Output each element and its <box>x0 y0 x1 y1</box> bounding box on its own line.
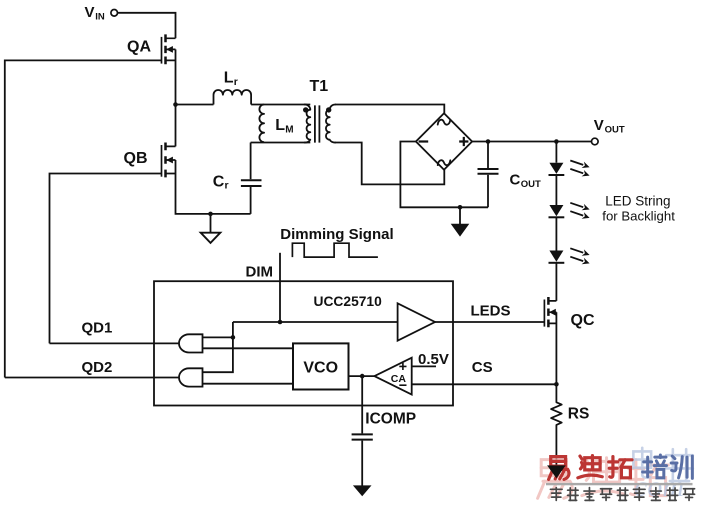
wire QA source to node A <box>175 49 177 146</box>
CA minus input mark <box>399 384 406 386</box>
wire QC source to CS node <box>555 312 557 384</box>
bridge AC squiggle bottom <box>438 160 451 165</box>
ground below RS <box>547 465 566 478</box>
wire VIN to QA drain <box>118 13 176 39</box>
inductor LM <box>259 105 264 143</box>
svg-text:UCC25710: UCC25710 <box>314 294 383 309</box>
svg-text:QA: QA <box>127 38 151 55</box>
node ICOMP junction <box>360 374 365 379</box>
wire T1 secondary bottom to bridge AC2 <box>335 143 444 185</box>
svg-text:T1: T1 <box>310 78 329 95</box>
wire QD1 <box>50 342 180 344</box>
svg-text:V: V <box>85 4 95 21</box>
comparator CA (faces left) <box>374 358 411 395</box>
dimming signal waveform <box>292 243 378 257</box>
ground (open) below Cr rail <box>210 214 212 233</box>
transistor QA <box>162 34 176 64</box>
svg-text:M: M <box>285 125 293 136</box>
transformer T1 secondary winding <box>326 104 336 142</box>
watermark blue text pei-xun <box>643 455 667 478</box>
svg-text:r: r <box>234 76 238 88</box>
svg-text:QB: QB <box>124 150 148 167</box>
transformer T1 core <box>315 105 320 142</box>
diode bridge rectifier <box>416 113 472 169</box>
node A junction <box>173 102 178 107</box>
inductor Lr <box>176 104 214 106</box>
wire VCO to AND1 input B <box>203 347 294 349</box>
T1 secondary phasing dot <box>326 107 331 112</box>
bridge AC squiggle top <box>438 120 451 125</box>
svg-text:QD1: QD1 <box>82 320 113 337</box>
wire QB gate lead down to QD1 <box>50 174 162 344</box>
svg-text:LEDS: LEDS <box>471 303 511 320</box>
bridge minus sign <box>419 140 429 142</box>
node ground tap junction <box>208 212 213 217</box>
ground below ICOMP cap <box>353 485 372 496</box>
PWM buffer U2 <box>398 303 435 340</box>
wire VCO output to CA <box>349 375 375 377</box>
wire QB source to bottom rail <box>176 160 251 214</box>
transistor QB <box>162 143 176 178</box>
svg-text:OUT: OUT <box>605 124 625 135</box>
wire D2 to D3 <box>555 217 557 250</box>
svg-text:IN: IN <box>95 11 105 22</box>
svg-text:QC: QC <box>571 312 595 329</box>
svg-text:VCO: VCO <box>303 359 338 376</box>
wire bridge negative to bottom rail <box>400 142 488 208</box>
wire LEDS to QC gate <box>435 322 544 323</box>
capacitor on ICOMP <box>352 434 373 439</box>
UCC25710 controller box U1 <box>154 281 453 405</box>
node bottom rail ground junction <box>458 205 463 210</box>
AND gate G2 (QD2 driver, faces left) <box>179 368 203 386</box>
svg-text:ICOMP: ICOMP <box>365 410 416 427</box>
wire D3 to QC drain <box>555 263 557 301</box>
svg-text:QD2: QD2 <box>82 359 113 376</box>
AND gate G1 (QD1 driver, faces left) <box>179 334 203 352</box>
svg-text:LED String: LED String <box>605 194 670 209</box>
LED D3 <box>549 251 563 262</box>
node VOUT terminal <box>592 138 599 145</box>
capacitor COUT <box>487 142 489 169</box>
svg-text:OUT: OUT <box>521 179 541 190</box>
wire ICOMP pin <box>361 376 363 433</box>
node CS junction <box>554 382 559 387</box>
T1 primary phasing dot <box>303 107 308 112</box>
VCO block <box>293 343 349 389</box>
svg-text:r: r <box>225 180 229 192</box>
wire to AND1 input A <box>203 336 233 338</box>
wire T1 primary bottom rail <box>251 142 311 144</box>
svg-text:Dimming Signal: Dimming Signal <box>280 226 393 243</box>
wire QA gate lead to left rail <box>5 60 162 377</box>
capacitor Cr <box>250 143 252 180</box>
svg-text:com: com <box>634 470 684 503</box>
wire DIM pin <box>279 253 281 322</box>
wire DIM branch vertical <box>203 322 233 372</box>
svg-text:DIM: DIM <box>246 264 274 281</box>
svg-text:L: L <box>275 117 285 134</box>
svg-text:C: C <box>510 171 521 188</box>
wire D1 to D2 <box>555 175 557 205</box>
resistor RS <box>551 384 562 465</box>
wire bridge positive to VOUT <box>472 141 591 143</box>
svg-text:RS: RS <box>568 405 590 422</box>
svg-text:CS: CS <box>472 359 493 376</box>
transformer T1 primary winding <box>304 104 310 142</box>
svg-text:CA: CA <box>391 373 407 385</box>
wire Lr to T1 primary top <box>251 104 310 106</box>
node gate1 input junction <box>231 335 236 340</box>
LED D1 <box>549 163 563 174</box>
wire CA inverting input / CS <box>412 383 557 385</box>
ground below bridge <box>459 207 461 224</box>
node DIM junction <box>278 320 283 325</box>
svg-text:L: L <box>224 69 234 86</box>
wire LED string top <box>555 142 557 163</box>
node COUT junction <box>486 139 491 144</box>
svg-text:0.5V: 0.5V <box>418 351 449 368</box>
svg-text:V: V <box>594 117 604 134</box>
watermark light echo layer <box>538 460 573 499</box>
bridge plus sign <box>459 137 468 146</box>
CA plus input mark <box>399 363 406 370</box>
LED D2 <box>549 205 563 216</box>
watermark red text yi-di-tuo <box>549 457 569 480</box>
watermark underline <box>546 483 693 485</box>
wire 0.5V reference stub <box>412 365 436 367</box>
wire QD2 <box>5 377 179 379</box>
svg-text:C: C <box>213 173 225 190</box>
svg-text:for Backlight: for Backlight <box>602 209 675 224</box>
node VIN terminal <box>111 10 118 17</box>
wire VCO to AND2 input B <box>203 383 294 385</box>
wire T1 secondary top to bridge AC1 <box>335 105 444 114</box>
watermark slogan row <box>550 488 562 501</box>
transistor QC <box>544 297 556 327</box>
wire DIM bus to PWM buffer input <box>233 321 398 323</box>
node LED string junction <box>554 139 559 144</box>
